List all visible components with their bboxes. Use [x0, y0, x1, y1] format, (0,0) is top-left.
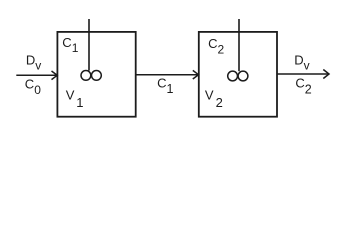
stirrer 2 impeller left circle: [228, 71, 238, 81]
stirrer 1 shaft: [88, 19, 90, 71]
outlet arrowhead: [323, 70, 329, 79]
stirrer 1 impeller right circle: [92, 71, 102, 81]
tank 2 vessel box: [199, 32, 277, 117]
inlet arrowhead: [52, 71, 58, 80]
outlet arrow: [277, 73, 328, 75]
stirrer 2 shaft: [238, 19, 240, 71]
stirrer 2 impeller right circle: [238, 71, 248, 81]
stirrer 1 impeller left circle: [81, 71, 91, 81]
tank 1 vessel box: [57, 32, 135, 117]
inter-stage arrowhead: [193, 70, 199, 79]
inter-stage arrow: [136, 74, 198, 76]
inlet feed arrow: [16, 74, 56, 76]
